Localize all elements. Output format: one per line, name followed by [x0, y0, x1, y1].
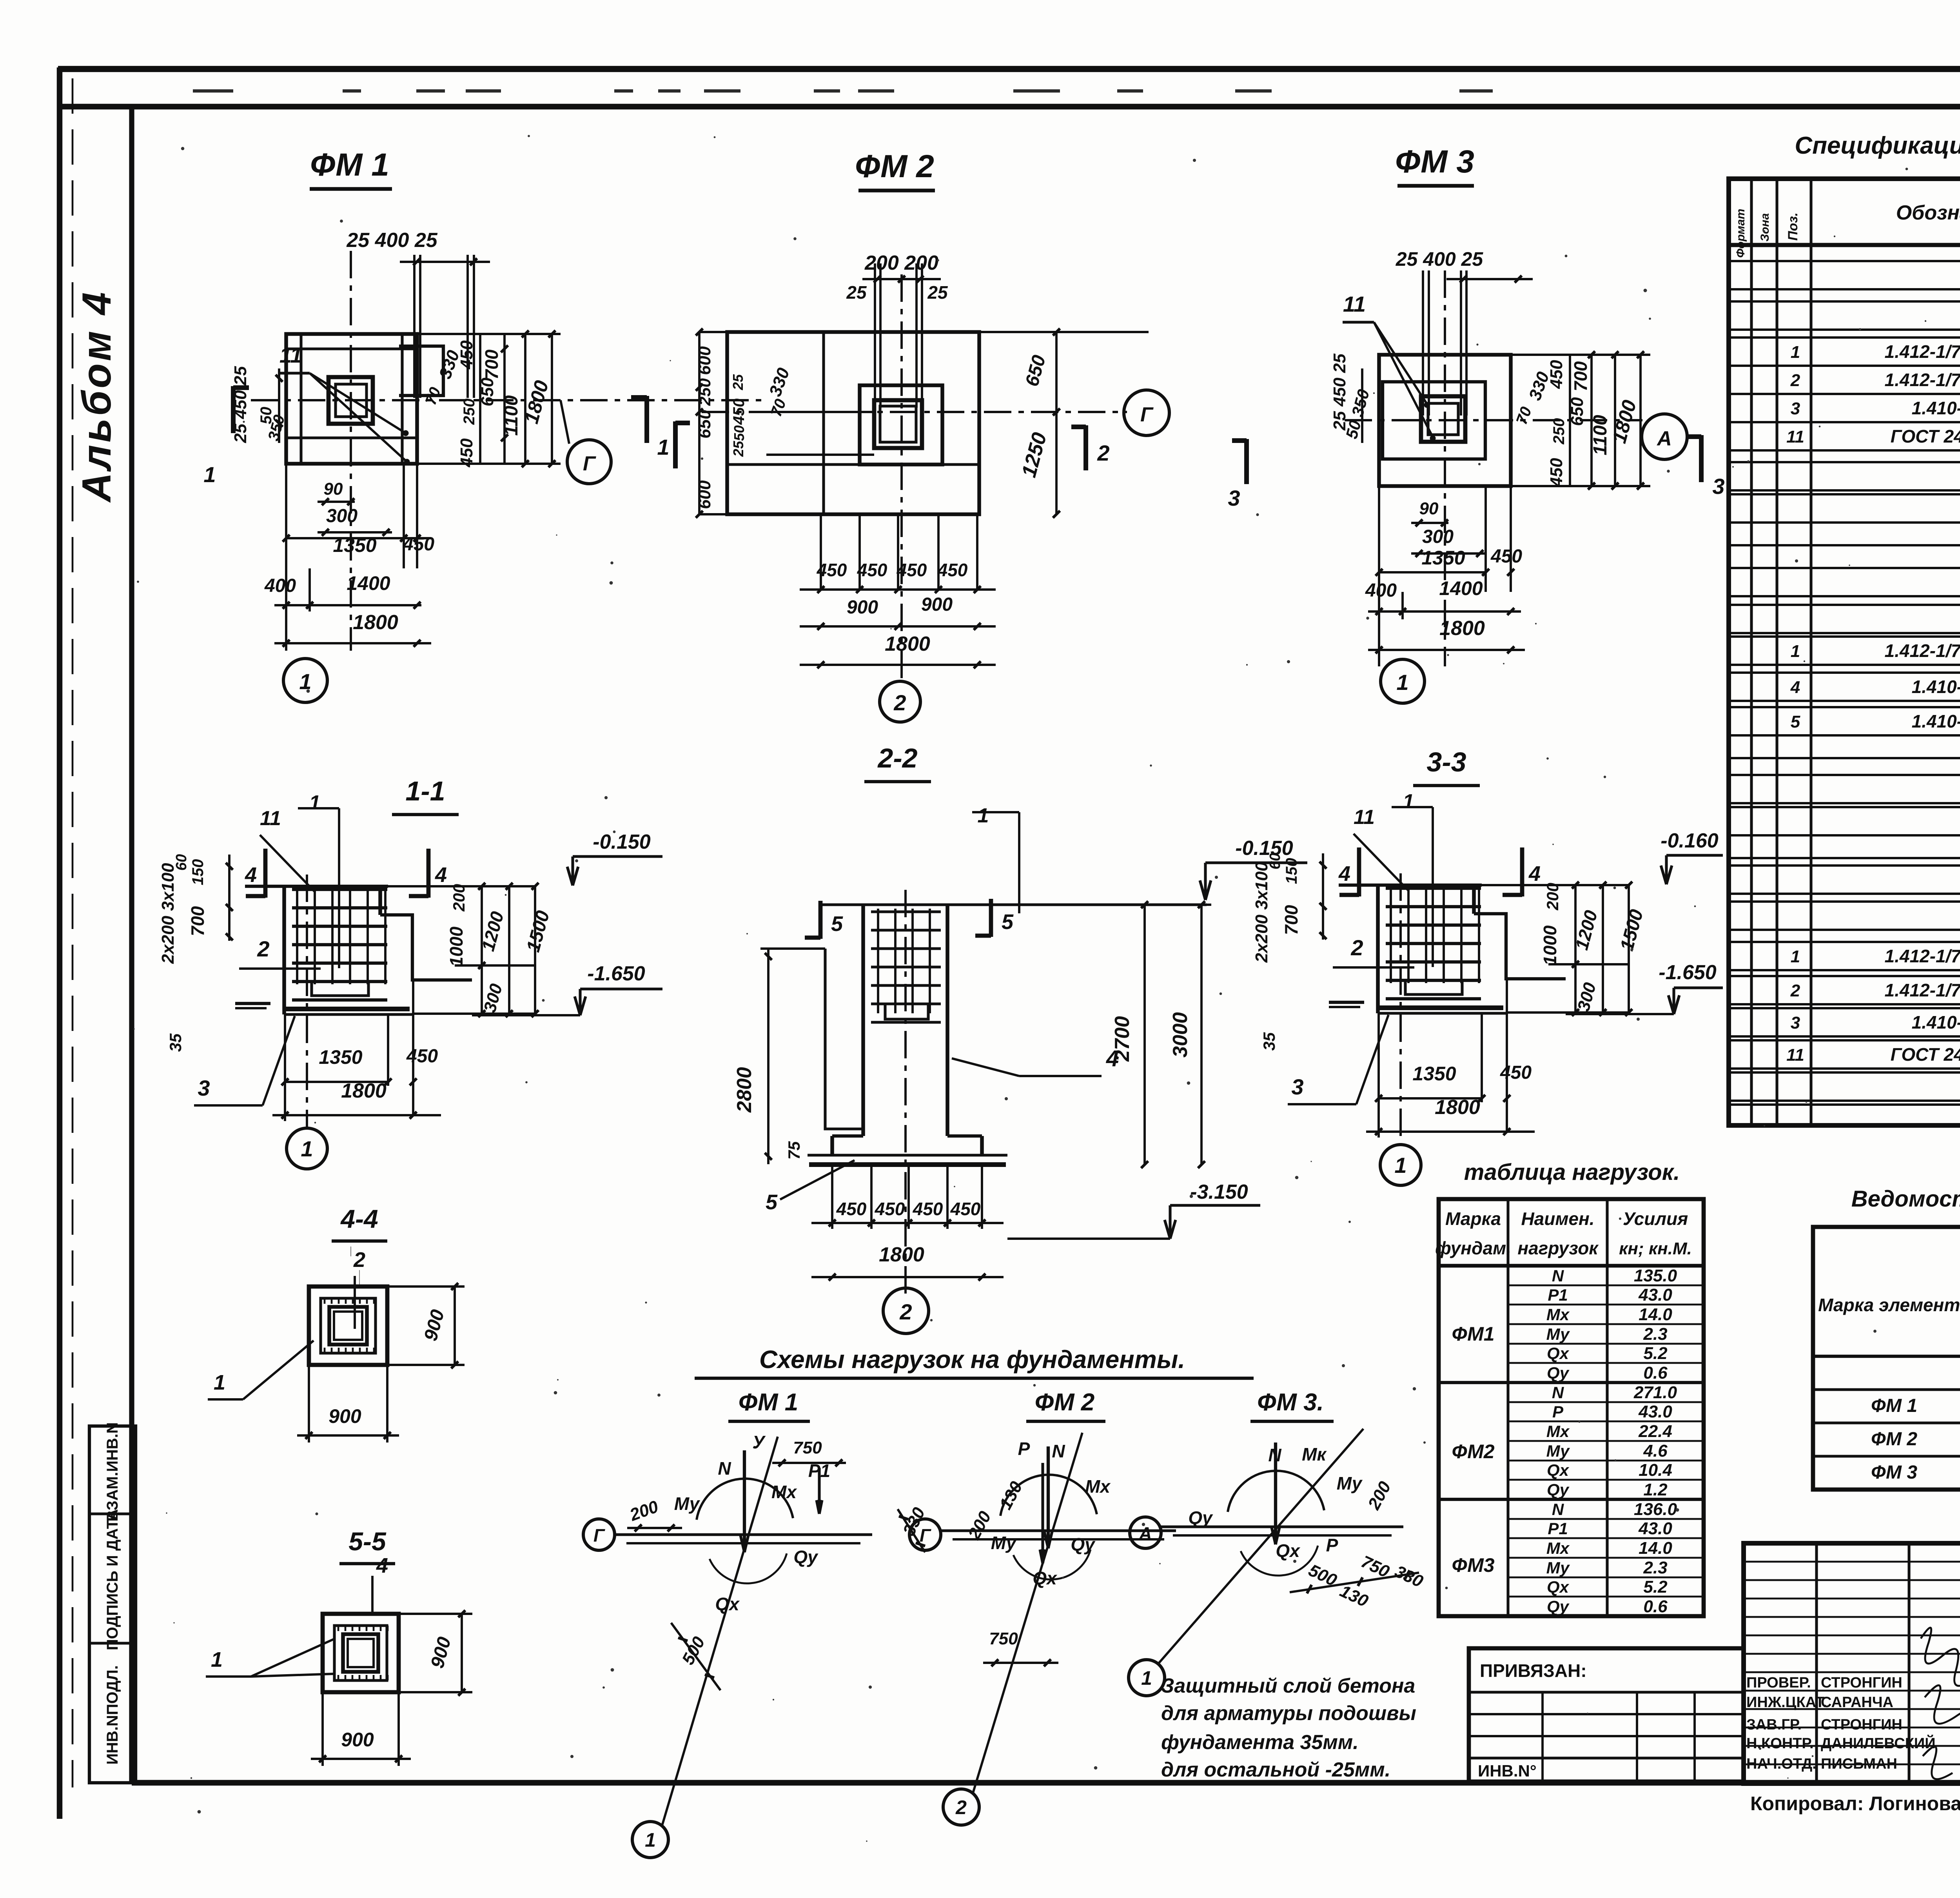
svg-text:5: 5 [1791, 712, 1800, 731]
svg-text:5: 5 [831, 912, 843, 936]
svg-text:2х200 3х100: 2х200 3х100 [158, 863, 178, 964]
svg-text:Мх: Мх [1546, 1539, 1570, 1557]
svg-text:1: 1 [211, 1648, 223, 1671]
svg-text:ИНВ.NПОДЛ.: ИНВ.NПОДЛ. [104, 1665, 121, 1765]
svg-text:1100: 1100 [501, 395, 522, 436]
svg-text:ФМ 2: ФМ 2 [1035, 1389, 1095, 1416]
section 3-3 top surface line [1339, 884, 1482, 887]
plan FM2 bottom dim chain 450x4 [820, 514, 822, 590]
svg-text:271.0: 271.0 [1633, 1383, 1677, 1402]
svg-text:1: 1 [1396, 670, 1408, 695]
svg-text:ПРОВЕР.: ПРОВЕР. [1746, 1675, 1811, 1691]
svg-text:2800: 2800 [733, 1067, 756, 1113]
svg-text:ФМ 1: ФМ 1 [1871, 1395, 1917, 1416]
plan FM1 right dim extension lines [479, 334, 481, 464]
svg-text:N: N [1268, 1445, 1281, 1465]
svg-text:4: 4 [376, 1554, 388, 1577]
section 2-2 section marks 5 [818, 901, 823, 939]
svg-text:250: 250 [461, 399, 478, 425]
svg-text:N: N [718, 1458, 731, 1479]
section 4-4 right dim 900 [387, 1285, 465, 1288]
section 4-4 squares [309, 1287, 387, 1365]
svg-text:1.412-1/77-В.3-020: 1.412-1/77-В.3-020 [1885, 946, 1960, 966]
svg-text:Мк: Мк [1302, 1444, 1327, 1464]
plan FM2 inner thick square [860, 385, 942, 465]
svg-text:0.6: 0.6 [1643, 1363, 1668, 1383]
plan FM2 axis circle G [1124, 390, 1169, 435]
plan FM1 datum circle 1 [283, 659, 327, 702]
svg-text:450: 450 [836, 1199, 867, 1219]
svg-text:300: 300 [326, 506, 358, 526]
svg-text:1100: 1100 [1590, 415, 1611, 455]
svg-text:Qу: Qу [1547, 1481, 1570, 1499]
svg-text:Мх: Мх [771, 1482, 797, 1502]
svg-text:ФМ 3: ФМ 3 [1395, 144, 1474, 180]
svg-text:таблица нагрузок.: таблица нагрузок. [1464, 1159, 1680, 1185]
svg-text:1800: 1800 [353, 611, 398, 634]
svg-text:1: 1 [1403, 790, 1414, 813]
section 3-3 right dim lines [1474, 884, 1629, 886]
svg-text:90: 90 [1419, 499, 1439, 518]
svg-text:11: 11 [279, 343, 302, 367]
svg-text:фундамента 35мм.: фундамента 35мм. [1161, 1731, 1359, 1754]
load scheme А moment arcs [1228, 1471, 1324, 1512]
svg-text:700: 700 [481, 349, 502, 379]
section 2-2 datum circle 2 [883, 1288, 929, 1334]
svg-text:Н.КОНТР.: Н.КОНТР. [1746, 1735, 1814, 1752]
svg-text:700: 700 [1570, 361, 1591, 391]
svg-text:Р: Р [1326, 1535, 1338, 1555]
section 2-2 bottom elevation [1169, 1205, 1171, 1237]
section 1-1 right dim lines [380, 885, 535, 887]
svg-text:Г: Г [920, 1525, 931, 1546]
svg-text:25: 25 [730, 374, 746, 390]
svg-text:ГОСТ 24379.1-80: ГОСТ 24379.1-80 [1891, 1044, 1960, 1065]
svg-text:ФМ 3: ФМ 3 [1871, 1462, 1917, 1483]
svg-text:2: 2 [353, 1248, 365, 1272]
svg-text:450: 450 [913, 1199, 943, 1219]
svg-text:5: 5 [766, 1190, 778, 1214]
section 1-1 section marks 4 [263, 849, 268, 898]
plan FM2 left dim line [698, 332, 701, 514]
svg-text:600: 600 [695, 480, 714, 509]
svg-text:Му: Му [674, 1493, 701, 1514]
section 3-3 right step notch [1474, 914, 1566, 979]
svg-text:ФМ 2: ФМ 2 [1871, 1429, 1917, 1450]
svg-text:35: 35 [166, 1033, 185, 1052]
load scheme Г diagonal line [973, 1433, 1082, 1793]
spec table row lines [1729, 260, 1960, 262]
svg-text:3: 3 [1712, 474, 1724, 499]
svg-text:300: 300 [1422, 526, 1454, 547]
svg-text:2: 2 [1790, 371, 1800, 390]
load scheme Г axis line [941, 1529, 1176, 1532]
svg-text:1.412-1/77-В.3-020: 1.412-1/77-В.3-020 [1885, 341, 1960, 362]
svg-text:1800: 1800 [885, 633, 930, 655]
svg-text:10.4: 10.4 [1639, 1461, 1672, 1480]
svg-text:для остальной -25мм.: для остальной -25мм. [1161, 1758, 1390, 1781]
svg-text:136.0: 136.0 [1634, 1500, 1677, 1519]
svg-text:ФМ2: ФМ2 [1452, 1441, 1494, 1463]
svg-text:ФМ 1: ФМ 1 [310, 147, 389, 183]
svg-text:3: 3 [1791, 399, 1800, 418]
svg-text:Му: Му [1546, 1442, 1570, 1460]
section 3-3 ground line left [1329, 1001, 1364, 1004]
load scheme Г vertical force arrow [1047, 1446, 1050, 1548]
svg-text:А: А [1138, 1523, 1152, 1544]
section 3-3 bottom elevation [1672, 988, 1675, 1013]
svg-text:4: 4 [1790, 678, 1800, 697]
svg-text:-1.650: -1.650 [587, 962, 645, 985]
svg-text:Qх: Qх [1276, 1541, 1301, 1561]
svg-text:ВЗАМ.ИНВ.N: ВЗАМ.ИНВ.N [104, 1422, 121, 1521]
plan FM3 column square [1421, 396, 1465, 442]
section 2-2 bottom dim chain [831, 1165, 833, 1229]
svg-text:1: 1 [978, 804, 989, 827]
section 3-3 section marks 4 [1357, 847, 1361, 896]
svg-text:ГОСТ 24379.1-80: ГОСТ 24379.1-80 [1891, 426, 1960, 446]
load scheme А axis circle [1130, 1517, 1161, 1548]
plan FM2 axis horizontal [702, 411, 1127, 413]
svg-text:150: 150 [189, 859, 207, 885]
svg-text:Марка элемента: Марка элемента [1818, 1295, 1960, 1315]
svg-text:1: 1 [1394, 1153, 1406, 1178]
svg-text:2: 2 [1790, 981, 1800, 1000]
plan FM3 bottom dim chain 1350 450 [1378, 486, 1380, 666]
svg-text:11: 11 [1354, 806, 1375, 829]
plan FM3 left section mark 3 [1244, 439, 1249, 484]
svg-text:Усилия: Усилия [1623, 1208, 1688, 1229]
plan FM2 inner lines [822, 332, 825, 514]
svg-text:1350: 1350 [319, 1046, 362, 1068]
svg-text:ФМ 3.: ФМ 3. [1257, 1389, 1324, 1416]
svg-text:Qх: Qх [1547, 1461, 1570, 1480]
svg-text:1: 1 [657, 435, 669, 459]
svg-text:-0.150: -0.150 [593, 831, 651, 853]
svg-text:2.3: 2.3 [1643, 1325, 1667, 1344]
svg-text:750: 750 [989, 1629, 1018, 1648]
plan FM3 axis circle A [1642, 414, 1687, 459]
section 1-1 datum circle [287, 1128, 327, 1169]
load scheme Г vertical force arrow [743, 1450, 746, 1552]
section 1-1 bottom dim chain [284, 1014, 286, 1121]
svg-text:1: 1 [301, 1136, 313, 1161]
section 3-3 top elevation [1665, 855, 1668, 882]
svg-text:Г: Г [1140, 403, 1154, 426]
svg-text:75: 75 [785, 1141, 803, 1159]
svg-text:5.2: 5.2 [1643, 1577, 1668, 1597]
svg-text:для арматуры подошвы: для арматуры подошвы [1161, 1702, 1416, 1725]
svg-text:СТРОНГИН: СТРОНГИН [1821, 1717, 1902, 1733]
svg-text:25: 25 [730, 441, 746, 457]
svg-text:Qу: Qу [1071, 1534, 1096, 1555]
plan FM1 axis vertical [350, 251, 352, 651]
plan FM2 left section mark [673, 421, 678, 468]
plan FM1 left section mark 1 [231, 386, 236, 433]
svg-text:ФМ 1: ФМ 1 [739, 1389, 799, 1416]
plan FM2 right dims [979, 331, 1149, 333]
svg-text:ПРИВЯЗАН:: ПРИВЯЗАН: [1480, 1660, 1587, 1681]
svg-text:750: 750 [793, 1438, 822, 1457]
svg-text:Qу: Qу [793, 1547, 818, 1567]
svg-text:90: 90 [324, 479, 343, 499]
svg-text:3: 3 [1291, 1074, 1303, 1099]
svg-text:250: 250 [1550, 418, 1568, 445]
svg-text:43.0: 43.0 [1638, 1402, 1672, 1421]
svg-text:1: 1 [203, 462, 216, 487]
section 1-1 footing slab [285, 1007, 410, 1011]
svg-text:1.2: 1.2 [1643, 1480, 1668, 1499]
svg-text:1: 1 [299, 669, 311, 694]
svg-text:400: 400 [1365, 580, 1397, 601]
svg-text:N: N [1552, 1267, 1564, 1285]
svg-text:-0.160: -0.160 [1661, 829, 1719, 852]
svg-text:Р: Р [1552, 1403, 1564, 1421]
svg-text:25: 25 [927, 282, 948, 303]
svg-text:1400: 1400 [1439, 577, 1483, 599]
plan FM2 axis vertical [900, 274, 903, 684]
section 3-3 rebar cage [1386, 887, 1481, 890]
svg-text:35: 35 [1260, 1032, 1278, 1051]
svg-text:фундам.: фундам. [1435, 1238, 1511, 1258]
svg-text:4-4: 4-4 [340, 1204, 378, 1233]
svg-text:N: N [1052, 1441, 1065, 1461]
svg-text:450: 450 [457, 438, 476, 468]
svg-text:2: 2 [893, 690, 906, 715]
svg-text:1400: 1400 [347, 572, 390, 594]
steel table frame [1813, 1227, 1960, 1490]
load scheme Г datum circle 1 [632, 1822, 668, 1858]
section 2-2 formwork left line [825, 949, 863, 1129]
section 3-3 axis line [1399, 873, 1402, 1144]
svg-text:Qх: Qх [715, 1594, 740, 1614]
svg-text:650: 650 [695, 410, 714, 439]
svg-text:N: N [1552, 1383, 1564, 1402]
svg-text:ПОДПИСЬ И ДАТА: ПОДПИСЬ И ДАТА [104, 1509, 121, 1650]
svg-text:2: 2 [955, 1796, 967, 1818]
svg-text:4: 4 [1338, 862, 1350, 885]
svg-text:А: А [1656, 427, 1672, 450]
svg-text:900: 900 [921, 594, 953, 615]
svg-text:650: 650 [1568, 397, 1587, 426]
section 3-3 pedestal outline [1376, 885, 1380, 1013]
svg-text:Поз.: Поз. [1786, 212, 1800, 241]
svg-text:11: 11 [260, 807, 281, 830]
frame top line [58, 104, 1960, 109]
section 2-2 right dims [1143, 905, 1146, 1165]
svg-text:14.0: 14.0 [1639, 1305, 1672, 1324]
title block signature rows [1744, 1561, 1960, 1563]
svg-text:3: 3 [1791, 1013, 1800, 1032]
section 1-1 top surface line [245, 885, 388, 888]
svg-text:ПИСЬМАН: ПИСЬМАН [1821, 1756, 1897, 1772]
section 2-2 column outline [861, 905, 865, 1136]
svg-text:4: 4 [245, 863, 257, 887]
svg-text:25 400 25: 25 400 25 [346, 229, 437, 252]
svg-text:Qх: Qх [1547, 1344, 1570, 1363]
section 2-2 footing [830, 1136, 834, 1155]
section 5-5 rebar ticks [338, 1626, 339, 1631]
svg-text:Альбом 4: Альбом 4 [74, 290, 120, 503]
plan FM3 anchor bolt lines [1422, 270, 1424, 416]
svg-text:Qу: Qу [1188, 1508, 1213, 1528]
svg-text:900: 900 [341, 1729, 374, 1751]
plan FM1 outer square [286, 334, 417, 464]
svg-text:Р1: Р1 [1548, 1519, 1568, 1538]
svg-text:1.410-3.1-12: 1.410-3.1-12 [1912, 398, 1960, 418]
loads table frame [1439, 1199, 1704, 1616]
section 1-1 bottom elevation [579, 989, 581, 1014]
svg-text:САРАНЧА: САРАНЧА [1821, 1694, 1893, 1711]
svg-text:Спецификация монолитных фундам: Спецификация монолитных фундаментов ФМ1÷… [1795, 132, 1960, 159]
svg-text:1000: 1000 [446, 926, 466, 967]
section 2-2 rebar cage [871, 910, 941, 913]
svg-text:1800: 1800 [1435, 1096, 1480, 1119]
plan FM1 bolt dots [403, 430, 408, 436]
svg-text:1.410-3.1-01: 1.410-3.1-01 [1912, 677, 1960, 697]
svg-text:Обозначение: Обозначение [1896, 201, 1960, 224]
left inner thin line [72, 78, 74, 1787]
load scheme Г axis line [615, 1533, 872, 1536]
svg-text:1800: 1800 [341, 1080, 387, 1102]
svg-text:450: 450 [937, 560, 968, 580]
title block signature frame [1744, 1543, 1960, 1784]
svg-text:НАЧ.ОТД.: НАЧ.ОТД. [1746, 1756, 1817, 1772]
svg-text:450: 450 [406, 1046, 438, 1067]
svg-text:Мх: Мх [1546, 1422, 1570, 1441]
svg-text:11: 11 [1343, 292, 1366, 316]
svg-text:4: 4 [435, 863, 447, 887]
privyazan block frame [1469, 1648, 1744, 1782]
svg-text:450: 450 [817, 560, 847, 580]
plan FM1 axis circle G [567, 440, 611, 484]
svg-text:3-3: 3-3 [1426, 747, 1466, 777]
plan FM3 right section mark 3 [1699, 435, 1704, 482]
svg-text:-1.650: -1.650 [1659, 961, 1717, 984]
svg-text:1: 1 [1791, 343, 1800, 362]
svg-text:-0.150: -0.150 [1235, 837, 1293, 860]
svg-text:1: 1 [645, 1829, 656, 1851]
svg-text:ДАНИЛЕВСКИЙ: ДАНИЛЕВСКИЙ [1821, 1734, 1936, 1752]
section 2-2 axis line [904, 890, 907, 1294]
svg-text:3000: 3000 [1169, 1012, 1192, 1058]
section 5-5 squares [323, 1614, 399, 1692]
svg-text:1350: 1350 [1421, 547, 1465, 569]
load scheme Г moment arcs [697, 1479, 793, 1520]
plan FM2 anchor bolt lines [874, 263, 876, 408]
privyazan block rows [1469, 1691, 1744, 1693]
section 3-3 datum circle [1380, 1145, 1421, 1185]
svg-text:11: 11 [1786, 427, 1804, 446]
svg-text:2: 2 [1097, 441, 1109, 465]
svg-text:600: 600 [695, 346, 714, 375]
svg-text:2: 2 [257, 936, 269, 961]
left page edge line [57, 67, 62, 1819]
spec table header [1729, 243, 1960, 247]
svg-text:400: 400 [264, 575, 296, 596]
svg-text:СТРОНГИН: СТРОНГИН [1821, 1675, 1902, 1691]
svg-text:43.0: 43.0 [1638, 1285, 1672, 1305]
svg-text:2: 2 [899, 1299, 912, 1324]
svg-text:700: 700 [1281, 905, 1301, 935]
svg-text:Мх: Мх [1546, 1305, 1570, 1324]
svg-text:1.412-1/77-В.3-020: 1.412-1/77-В.3-020 [1885, 641, 1960, 661]
privyazan block verticals [1541, 1692, 1544, 1782]
plan FM1 anchor bolt lines [413, 255, 416, 398]
svg-text:22.4: 22.4 [1638, 1422, 1672, 1441]
load scheme Г datum circle 2 [943, 1789, 979, 1825]
svg-text:1-1: 1-1 [405, 776, 445, 806]
svg-text:ИНЖ.ЦКАТ.: ИНЖ.ЦКАТ. [1746, 1694, 1827, 1711]
svg-text:5-5: 5-5 [348, 1527, 387, 1556]
svg-text:Qу: Qу [1547, 1364, 1570, 1383]
left stamp strip dividers [89, 1512, 136, 1515]
svg-text:450: 450 [1500, 1062, 1532, 1083]
frame left line [129, 107, 134, 1783]
svg-text:14.0: 14.0 [1639, 1539, 1672, 1558]
svg-text:У: У [752, 1432, 766, 1452]
section 5-5 right dim 900 [399, 1613, 472, 1615]
svg-text:450: 450 [857, 560, 887, 580]
plan FM1 right section mark 1 [644, 396, 649, 443]
svg-text:Схемы нагрузок на фундаменты.: Схемы нагрузок на фундаменты. [759, 1345, 1185, 1374]
load scheme Г diagonal line [662, 1437, 778, 1825]
plan FM3 right dim extension lines [1569, 355, 1571, 486]
svg-text:250: 250 [695, 378, 714, 406]
svg-text:60: 60 [173, 854, 190, 871]
svg-text:2700: 2700 [1111, 1016, 1134, 1062]
svg-text:2.3: 2.3 [1643, 1558, 1667, 1577]
svg-text:Ведомость расхода стали на эле: Ведомость расхода стали на элемент, кГ. [1851, 1186, 1960, 1212]
svg-text:кн; кн.М.: кн; кн.М. [1619, 1239, 1692, 1258]
svg-text:Му: Му [991, 1533, 1017, 1553]
svg-text:Р1: Р1 [1548, 1286, 1568, 1304]
plan FM3 outer square [1379, 355, 1511, 486]
svg-text:25 400 25: 25 400 25 [1396, 248, 1484, 270]
svg-text:Qх: Qх [1547, 1578, 1570, 1597]
svg-text:Qу: Qу [1547, 1597, 1570, 1616]
svg-text:Защитный слой бетона: Защитный слой бетона [1161, 1675, 1415, 1697]
plan FM2 right section mark 2 [1083, 425, 1088, 470]
plan FM3 datum circle 1 [1381, 659, 1425, 703]
left stamp strip box [89, 1426, 136, 1783]
svg-text:1.412-1/72-В.3-100: 1.412-1/72-В.3-100 [1885, 980, 1960, 1000]
section 1-1 right step notch [380, 915, 472, 980]
svg-text:1: 1 [1791, 642, 1800, 661]
svg-text:1: 1 [309, 791, 321, 814]
svg-text:Му: Му [1546, 1559, 1570, 1577]
svg-text:2х200 3х100: 2х200 3х100 [1252, 862, 1271, 963]
section 3-3 bottom dim chain [1377, 1013, 1380, 1138]
svg-text:1800: 1800 [879, 1243, 924, 1266]
svg-text:-3.150: -3.150 [1190, 1181, 1248, 1203]
svg-text:450: 450 [1547, 458, 1566, 487]
plan FM3 axis horizontal [1345, 419, 1642, 421]
svg-text:Марка: Марка [1445, 1208, 1501, 1229]
svg-text:0.6: 0.6 [1643, 1597, 1668, 1616]
svg-text:650: 650 [478, 377, 497, 406]
svg-text:200: 200 [1543, 883, 1562, 911]
plan FM3 inner offset square [1383, 382, 1485, 459]
section 1-1 top elevation [571, 856, 574, 883]
svg-text:Г: Г [583, 452, 596, 475]
section 1-1 rebar cage [292, 888, 387, 891]
svg-text:1800: 1800 [1439, 617, 1485, 640]
svg-text:Г: Г [593, 1525, 605, 1546]
svg-text:Копировал: Логинова: Копировал: Логинова [1750, 1793, 1960, 1815]
top border line [58, 66, 1960, 72]
svg-text:1350: 1350 [1412, 1063, 1456, 1085]
